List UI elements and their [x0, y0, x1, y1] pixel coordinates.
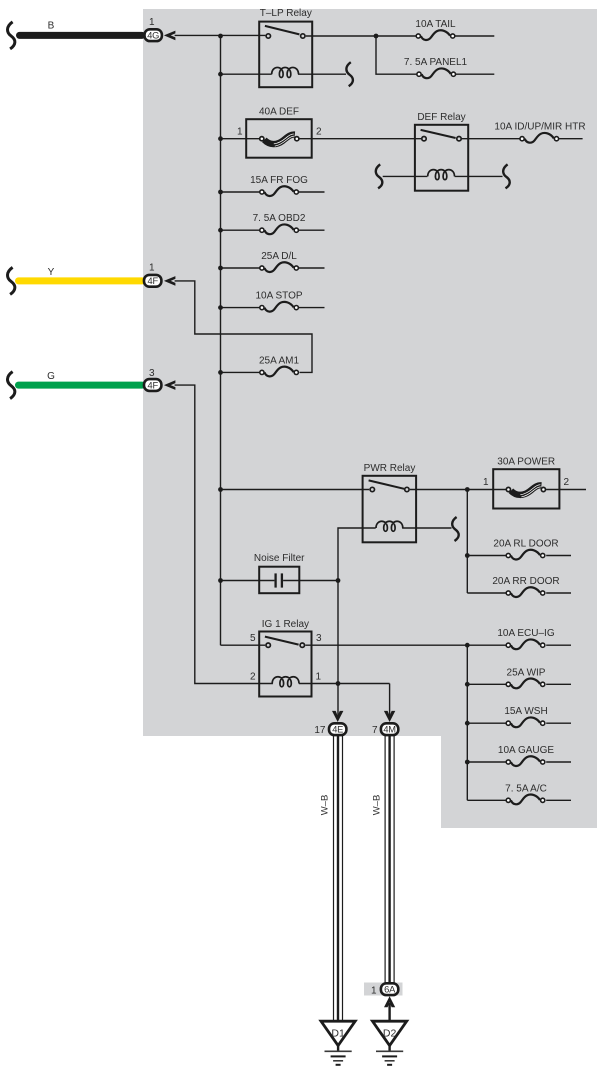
wire Y (yellow feed) [19, 267, 143, 281]
wire: DEF relay switch to 10A ID/UP/MIR HTR [462, 138, 520, 140]
wire: PWR coil left drop to noise filter node [338, 528, 376, 718]
wire: PWR relay switch to 30A POWER pin1 [410, 489, 506, 491]
wire: right feeder vertical upper (30A POWER to RR DOOR) [466, 490, 468, 594]
wire: cut to DEF relay coil [383, 175, 428, 177]
svg-text:2: 2 [564, 477, 570, 488]
junction dot at noise filter output [336, 578, 341, 583]
ground symbol under D1 [325, 1046, 352, 1065]
wire: T-LP switch out to 10A TAIL fuse [306, 35, 416, 37]
svg-text:4F: 4F [147, 380, 158, 390]
fuse 7.5A PANEL1 [404, 57, 468, 78]
svg-text:G: G [47, 371, 55, 382]
svg-text:10A ECU–IG: 10A ECU–IG [497, 628, 554, 639]
wire: to 10A GAUGE [467, 761, 506, 763]
fuse 10A TAIL [415, 19, 456, 40]
arrow into 4M [384, 711, 395, 722]
wire: 20A RL DOOR output [546, 555, 571, 557]
wire: bus to T-LP relay coil [221, 73, 272, 75]
wire: to 20A RR DOOR [467, 592, 506, 594]
wire: DEF relay coil out to cut [455, 175, 503, 177]
svg-text:10A ID/UP/MIR HTR: 10A ID/UP/MIR HTR [494, 122, 585, 133]
wire: to 25A WIP [467, 683, 506, 685]
wire: 10A TAIL output [455, 35, 494, 37]
junction dots on main bus [218, 34, 223, 583]
wire: bus corner into IG1 relay pin 5 [221, 644, 266, 646]
svg-text:7. 5A A/C: 7. 5A A/C [505, 783, 547, 794]
svg-text:Y: Y [48, 267, 55, 278]
svg-text:25A AM1: 25A AM1 [259, 355, 299, 366]
svg-text:1: 1 [371, 985, 377, 996]
svg-text:1: 1 [483, 477, 489, 488]
cut symbol at wire G [8, 372, 15, 399]
svg-text:4E: 4E [332, 725, 343, 735]
svg-text:15A FR FOG: 15A FR FOG [250, 175, 308, 186]
junction dot at IG1 pin1 / 4E drop [336, 681, 341, 686]
ground symbol under D2 [376, 1046, 403, 1065]
svg-text:30A POWER: 30A POWER [497, 456, 555, 467]
svg-text:40A DEF: 40A DEF [259, 106, 299, 117]
wire: 30A POWER pin2 output [546, 489, 586, 491]
wire: bus to 40A DEF [221, 138, 260, 140]
ground point D1 (triangle) [321, 1021, 355, 1045]
wire G (green feed) [19, 371, 143, 385]
fuse 15A FR FOG [250, 175, 308, 196]
svg-text:1: 1 [149, 17, 155, 28]
grey chip behind connector 6A [364, 983, 403, 996]
wire: to 7.5A A/C [467, 799, 506, 801]
wire: to 15A WSH [467, 722, 506, 724]
wire: bus to noise filter [221, 580, 275, 582]
svg-text:1: 1 [149, 263, 155, 274]
svg-text:25A WIP: 25A WIP [507, 667, 546, 678]
wire: 7.5A OBD2 output [299, 229, 325, 231]
svg-text:15A WSH: 15A WSH [504, 706, 547, 717]
svg-text:4M: 4M [383, 725, 396, 735]
wire W-B from 4E to ground D1 (white wire, black stripe) [320, 735, 343, 1022]
fuse 7.5A OBD2 [253, 213, 306, 234]
svg-text:10A GAUGE: 10A GAUGE [498, 745, 554, 756]
svg-text:10A STOP: 10A STOP [255, 291, 302, 302]
svg-text:6A: 6A [384, 985, 396, 995]
svg-text:20A RR DOOR: 20A RR DOOR [492, 576, 559, 587]
svg-text:D2: D2 [383, 1027, 397, 1039]
svg-text:T–LP Relay: T–LP Relay [260, 8, 312, 19]
arrow into 4F (G) [164, 380, 176, 390]
svg-text:4F: 4F [147, 276, 158, 286]
svg-text:4G: 4G [147, 31, 159, 41]
wire W-B from 4M to connector 6A [372, 735, 395, 984]
svg-text:D1: D1 [331, 1027, 345, 1039]
wire: main bus vertical [220, 36, 222, 645]
fuse 25A WIP [506, 667, 546, 688]
svg-text:1: 1 [237, 127, 243, 138]
wire: 10A ECU-IG output [546, 644, 571, 646]
svg-text:2: 2 [250, 672, 256, 683]
junction dot at TAIL/PANEL1 branch [374, 34, 379, 39]
svg-text:W–B: W–B [372, 795, 383, 816]
cut symbol at wire Y [8, 267, 15, 294]
fusible link F2 30A POWER [483, 456, 570, 508]
cut symbol at wire B [8, 22, 15, 49]
cut symbol at PWR relay coil output [452, 517, 459, 541]
wire: 7.5A A/C output [546, 799, 571, 801]
connector 4F pin 1 [144, 263, 161, 287]
svg-text:PWR Relay: PWR Relay [364, 463, 416, 474]
wire: right feeder vertical lower (ECU-IG to 7.5A A/C) [466, 645, 468, 800]
svg-text:2: 2 [316, 127, 322, 138]
wire: bus to 15A FR FOG [221, 191, 260, 193]
connector 6A pin 1 [371, 983, 398, 996]
wire: 4F(Y) arrow link down to 25A AM1 [175, 281, 312, 373]
wire: 4F(G) arrow link down to IG1 relay pin 2 [175, 385, 273, 683]
fuse 20A RR DOOR [492, 576, 559, 597]
fuse 20A RL DOOR [493, 539, 558, 560]
arrow into 4F (Y) [164, 276, 176, 286]
connector 4E pin 17 [314, 723, 346, 736]
fuse 25A AM1 [259, 355, 299, 376]
svg-text:W–B: W–B [320, 795, 331, 816]
svg-text:3: 3 [149, 368, 155, 379]
fuse 10A ECU-IG [497, 628, 554, 649]
svg-text:IG 1 Relay: IG 1 Relay [262, 619, 309, 630]
wire: 4M drop vertical [389, 684, 391, 718]
relay U1 T-LP Relay [259, 8, 312, 87]
wire: IG1 pin 1 out to 4M drop [299, 683, 390, 685]
svg-text:10A TAIL: 10A TAIL [415, 19, 456, 30]
arrow into 6A from below [384, 996, 395, 1007]
wire: 15A FR FOG output [299, 191, 325, 193]
fuse 25A D/L [260, 251, 299, 272]
cut symbol at DEF relay coil left [376, 164, 383, 188]
relay U3 PWR Relay [363, 463, 417, 543]
wire: 25A WIP output [546, 683, 571, 685]
junction dots on right feeder [465, 487, 470, 764]
svg-text:DEF Relay: DEF Relay [417, 112, 465, 123]
svg-text:1: 1 [316, 672, 322, 683]
fuse 10A GAUGE [498, 745, 554, 766]
connector 4M pin 7 [372, 723, 398, 736]
wire: 20A RR DOOR output [546, 592, 571, 594]
connector 4F pin 3 [144, 368, 161, 391]
svg-text:7: 7 [372, 725, 378, 736]
ground point D2 (triangle) [373, 1021, 407, 1045]
fuse 7.5A A/C [505, 783, 547, 804]
cut symbol at DEF relay coil right [503, 164, 510, 188]
wire: 10A ID/UP/MIR HTR output [559, 138, 583, 140]
fusible link F1 40A DEF [237, 106, 322, 157]
relay U4 IG 1 Relay [250, 619, 322, 697]
wire: bus to 7.5A OBD2 [221, 229, 260, 231]
wire: IG1 pin 3 to 10A ECU-IG [305, 644, 505, 646]
background panel (grey main) [143, 9, 597, 736]
fuse 10A ID/UP/MIR HTR [494, 122, 585, 143]
wire: bus to 25A AM1 [221, 371, 260, 373]
fuse 15A WSH [504, 706, 547, 727]
connector 4G pin 1 [145, 17, 162, 41]
wire: 6A to ground D2 [388, 1003, 390, 1021]
wire: branch down to 7.5A PANEL1 [376, 36, 417, 74]
svg-text:5: 5 [250, 633, 256, 644]
svg-text:25A D/L: 25A D/L [261, 251, 297, 262]
wire: 7.5A PANEL1 output [456, 73, 495, 75]
wire: 40A DEF pin2 to DEF relay switch [299, 138, 421, 140]
svg-text:7. 5A PANEL1: 7. 5A PANEL1 [404, 57, 468, 68]
wire: PWR coil out to cut [402, 527, 451, 529]
capacitor C1 Noise Filter [254, 553, 305, 593]
wire: noise filter output to drop node [283, 580, 338, 582]
relay U2 DEF Relay [415, 112, 468, 191]
wire B (thick black battery feed) [20, 21, 143, 36]
wire: 10A STOP output [299, 307, 325, 309]
wire: to 20A RL DOOR [467, 555, 506, 557]
wire: bus to PWR relay switch [221, 489, 370, 491]
svg-text:17: 17 [314, 725, 326, 736]
svg-text:B: B [48, 21, 55, 32]
cut symbol at T-LP coil output [346, 62, 353, 86]
svg-text:7. 5A OBD2: 7. 5A OBD2 [253, 213, 306, 224]
wire: bus to 10A STOP [221, 307, 260, 309]
wire: bus to 25A D/L [221, 267, 260, 269]
svg-text:20A RL DOOR: 20A RL DOOR [493, 539, 558, 550]
wire: 4G arrow to T-LP relay switch [175, 34, 266, 36]
arrow into 4E [332, 711, 343, 722]
wire: 15A WSH output [546, 722, 571, 724]
svg-text:Noise Filter: Noise Filter [254, 553, 305, 564]
svg-text:3: 3 [316, 633, 322, 644]
fuse 10A STOP [255, 291, 302, 312]
background panel (grey lower right) [441, 736, 597, 828]
arrow into 4G [164, 31, 176, 41]
wire: 10A GAUGE output [546, 761, 571, 763]
wire: 25A D/L output [299, 267, 325, 269]
wire: T-LP coil out to cut [298, 73, 346, 75]
